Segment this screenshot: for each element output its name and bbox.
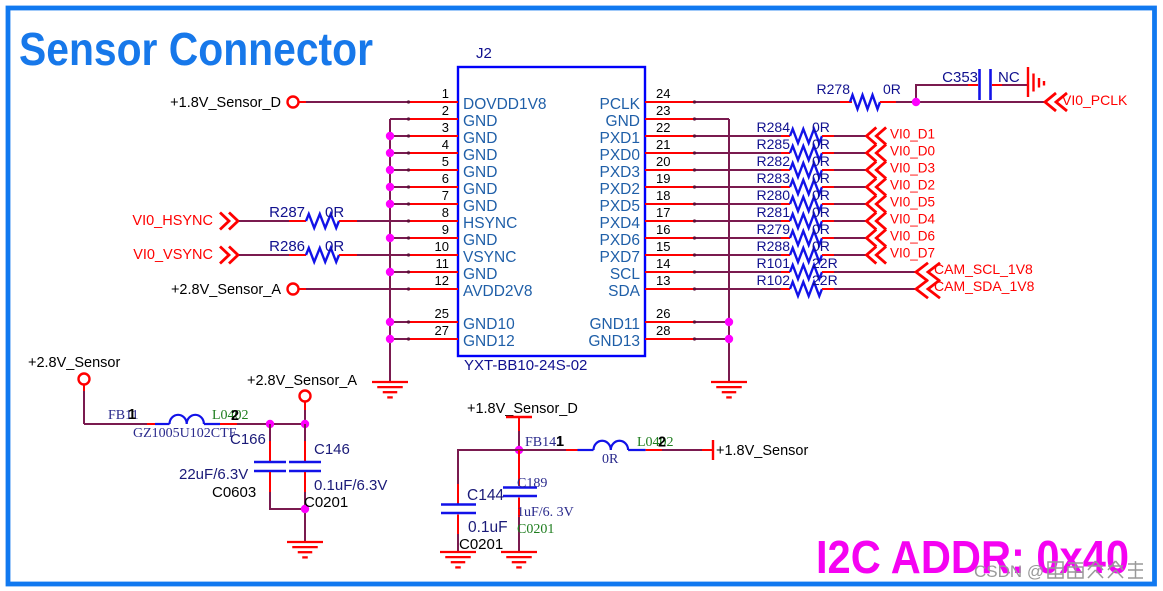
svg-text:C0201: C0201 xyxy=(304,494,348,511)
svg-text:26: 26 xyxy=(656,306,670,321)
svg-text:R282: R282 xyxy=(757,153,791,169)
svg-text:R286: R286 xyxy=(269,238,305,255)
svg-text:0.1uF: 0.1uF xyxy=(468,519,508,536)
svg-text:PXD0: PXD0 xyxy=(600,147,641,164)
svg-text:PXD1: PXD1 xyxy=(600,130,641,147)
svg-text:GND: GND xyxy=(463,232,497,249)
svg-text:GND: GND xyxy=(463,147,497,164)
svg-text:2: 2 xyxy=(658,435,666,451)
svg-text:VI0_D6: VI0_D6 xyxy=(890,229,935,244)
svg-text:C0201: C0201 xyxy=(459,536,503,553)
svg-text:PXD2: PXD2 xyxy=(600,181,641,198)
svg-text:PXD5: PXD5 xyxy=(600,198,641,215)
svg-text:J2: J2 xyxy=(476,45,492,62)
svg-text:R287: R287 xyxy=(269,204,305,221)
svg-text:R281: R281 xyxy=(757,204,791,220)
svg-text:14: 14 xyxy=(656,256,670,271)
svg-text:R278: R278 xyxy=(817,81,851,97)
svg-text:AVDD2V8: AVDD2V8 xyxy=(463,283,533,300)
svg-text:22uF/6.3V: 22uF/6.3V xyxy=(179,466,248,483)
svg-text:22: 22 xyxy=(656,120,670,135)
svg-text:C189: C189 xyxy=(517,476,547,491)
svg-text:12: 12 xyxy=(435,273,449,288)
svg-text:10: 10 xyxy=(435,239,449,254)
svg-text:GND: GND xyxy=(463,113,497,130)
svg-text:VI0_D2: VI0_D2 xyxy=(890,178,935,193)
svg-text:GND: GND xyxy=(606,113,640,130)
svg-text:4: 4 xyxy=(442,137,449,152)
svg-text:GND: GND xyxy=(463,130,497,147)
svg-text:VI0_D3: VI0_D3 xyxy=(890,161,935,176)
svg-text:2: 2 xyxy=(442,103,449,118)
svg-text:22R: 22R xyxy=(812,272,838,288)
svg-text:0R: 0R xyxy=(325,204,344,221)
svg-text:GND: GND xyxy=(463,164,497,181)
svg-text:VI0_D7: VI0_D7 xyxy=(890,246,935,261)
svg-text:CAM_SDA_1V8: CAM_SDA_1V8 xyxy=(934,278,1035,294)
svg-text:R279: R279 xyxy=(757,221,791,237)
svg-text:0R: 0R xyxy=(812,119,830,135)
svg-text:GZ1005U102CTF: GZ1005U102CTF xyxy=(133,426,237,441)
svg-text:VSYNC: VSYNC xyxy=(463,249,516,266)
svg-text:VI0_HSYNC: VI0_HSYNC xyxy=(132,213,213,229)
svg-text:I2C ADDR: 0x40: I2C ADDR: 0x40 xyxy=(816,531,1129,583)
svg-text:20: 20 xyxy=(656,154,670,169)
svg-text:+2.8V_Sensor: +2.8V_Sensor xyxy=(28,355,120,371)
svg-text:+2.8V_Sensor_A: +2.8V_Sensor_A xyxy=(171,282,281,298)
svg-text:11: 11 xyxy=(436,256,450,271)
svg-text:0.1uF/6.3V: 0.1uF/6.3V xyxy=(314,477,387,494)
svg-text:21: 21 xyxy=(656,137,670,152)
svg-text:1: 1 xyxy=(442,86,449,101)
svg-text:0R: 0R xyxy=(325,238,344,255)
svg-text:SDA: SDA xyxy=(608,283,641,300)
svg-text:15: 15 xyxy=(656,239,670,254)
svg-text:25: 25 xyxy=(435,306,449,321)
svg-text:L0402: L0402 xyxy=(637,435,674,450)
svg-text:+1.8V_Sensor: +1.8V_Sensor xyxy=(716,443,808,459)
svg-text:VI0_D5: VI0_D5 xyxy=(890,195,935,210)
svg-text:0R: 0R xyxy=(812,221,830,237)
svg-text:GND: GND xyxy=(463,266,497,283)
svg-text:1uF/6. 3V: 1uF/6. 3V xyxy=(517,505,574,520)
svg-text:R285: R285 xyxy=(757,136,791,152)
svg-text:GND11: GND11 xyxy=(589,316,640,333)
svg-text:C146: C146 xyxy=(314,441,350,458)
svg-text:CAM_SCL_1V8: CAM_SCL_1V8 xyxy=(934,261,1033,277)
svg-text:17: 17 xyxy=(656,205,670,220)
svg-text:YXT-BB10-24S-02: YXT-BB10-24S-02 xyxy=(464,357,587,374)
svg-text:PCLK: PCLK xyxy=(600,96,641,113)
svg-text:DOVDD1V8: DOVDD1V8 xyxy=(463,96,547,113)
svg-text:19: 19 xyxy=(656,171,670,186)
svg-text:R101: R101 xyxy=(757,255,791,271)
svg-text:R280: R280 xyxy=(757,187,791,203)
svg-text:0R: 0R xyxy=(812,204,830,220)
svg-text:9: 9 xyxy=(442,222,449,237)
svg-text:23: 23 xyxy=(656,103,670,118)
svg-text:3: 3 xyxy=(442,120,449,135)
svg-text:2: 2 xyxy=(231,408,239,424)
svg-text:C0201: C0201 xyxy=(517,522,554,537)
svg-text:22R: 22R xyxy=(812,255,838,271)
svg-text:0R: 0R xyxy=(812,238,830,254)
svg-text:PXD7: PXD7 xyxy=(600,249,641,266)
svg-text:0R: 0R xyxy=(602,452,619,467)
svg-text:24: 24 xyxy=(656,86,670,101)
svg-text:+1.8V_Sensor_D: +1.8V_Sensor_D xyxy=(467,401,578,417)
svg-text:6: 6 xyxy=(442,171,449,186)
svg-text:GND: GND xyxy=(463,198,497,215)
svg-text:0R: 0R xyxy=(812,187,830,203)
svg-text:HSYNC: HSYNC xyxy=(463,215,517,232)
svg-text:28: 28 xyxy=(656,323,670,338)
svg-text:C353: C353 xyxy=(942,69,978,86)
svg-text:C166: C166 xyxy=(230,431,266,448)
svg-text:VI0_PCLK: VI0_PCLK xyxy=(1062,92,1128,108)
svg-text:16: 16 xyxy=(656,222,670,237)
svg-text:VI0_D0: VI0_D0 xyxy=(890,144,935,159)
svg-text:NC: NC xyxy=(998,69,1020,86)
svg-text:GND10: GND10 xyxy=(463,316,515,333)
svg-text:0R: 0R xyxy=(812,153,830,169)
svg-text:GND: GND xyxy=(463,181,497,198)
svg-text:R288: R288 xyxy=(757,238,791,254)
svg-text:C144: C144 xyxy=(467,487,504,504)
svg-text:5: 5 xyxy=(442,154,449,169)
svg-text:0R: 0R xyxy=(883,81,901,97)
svg-text:7: 7 xyxy=(442,188,449,203)
svg-text:VI0_VSYNC: VI0_VSYNC xyxy=(133,247,213,263)
svg-text:R102: R102 xyxy=(757,272,791,288)
svg-text:27: 27 xyxy=(435,323,449,338)
svg-text:0R: 0R xyxy=(812,136,830,152)
svg-text:8: 8 xyxy=(442,205,449,220)
svg-text:18: 18 xyxy=(656,188,670,203)
svg-text:PXD3: PXD3 xyxy=(600,164,641,181)
svg-text:GND13: GND13 xyxy=(588,333,640,350)
svg-text:CSDN @: CSDN @ xyxy=(974,562,1044,581)
svg-text:Sensor Connector: Sensor Connector xyxy=(19,23,373,75)
svg-text:PXD4: PXD4 xyxy=(600,215,641,232)
svg-text:GND12: GND12 xyxy=(463,333,515,350)
svg-text:R283: R283 xyxy=(757,170,791,186)
svg-text:PXD6: PXD6 xyxy=(600,232,641,249)
svg-text:SCL: SCL xyxy=(610,266,641,283)
svg-text:13: 13 xyxy=(656,273,670,288)
svg-text:+1.8V_Sensor_D: +1.8V_Sensor_D xyxy=(170,95,281,111)
svg-text:+2.8V_Sensor_A: +2.8V_Sensor_A xyxy=(247,373,357,389)
svg-text:1: 1 xyxy=(128,407,136,423)
svg-text:VI0_D1: VI0_D1 xyxy=(890,127,935,142)
svg-text:1: 1 xyxy=(556,434,564,450)
svg-text:R284: R284 xyxy=(757,119,791,135)
svg-text:C0603: C0603 xyxy=(212,484,256,501)
svg-text:0R: 0R xyxy=(812,170,830,186)
svg-text:VI0_D4: VI0_D4 xyxy=(890,212,936,227)
